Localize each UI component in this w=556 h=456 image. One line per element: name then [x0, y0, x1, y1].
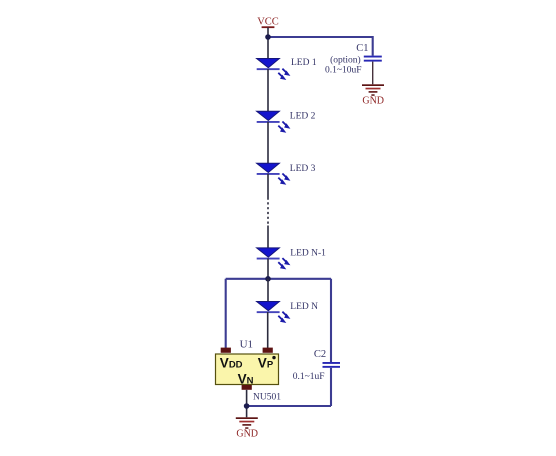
power flag VCC [257, 17, 279, 38]
wire LED N to VP pin [267, 312, 269, 348]
svg-text:0.1~10uF: 0.1~10uF [325, 66, 362, 76]
pin 1 dot [272, 356, 275, 359]
svg-text:LED N-1: LED N-1 [290, 248, 326, 258]
LED N-1 [257, 248, 291, 270]
svg-text:NU501: NU501 [253, 393, 281, 403]
wire LED1 to LED2 [267, 69, 269, 111]
pin pad VDD [221, 348, 231, 353]
LED 3 [257, 163, 291, 185]
IC U1 body [216, 354, 279, 385]
wire C1 to ground [372, 62, 374, 85]
svg-text:U1: U1 [240, 338, 253, 350]
wire box right vertical to C2 [330, 279, 332, 363]
wire LED2 to LED3 [267, 122, 269, 163]
svg-text:VCC: VCC [257, 17, 279, 28]
wire junction to LED N [267, 279, 269, 302]
junction node below LED N-1 [265, 276, 271, 282]
capacitor C1 [364, 56, 382, 62]
svg-text:LED 3: LED 3 [290, 164, 316, 174]
pin pad VN [242, 385, 252, 390]
svg-text:(option): (option) [330, 54, 361, 65]
svg-text:C1: C1 [356, 43, 368, 54]
svg-text:GND: GND [362, 96, 384, 107]
wire VCC node to LED1 [267, 37, 269, 59]
wire bottom rail horizontal [247, 405, 331, 407]
LED N [257, 302, 291, 324]
svg-text:LED 2: LED 2 [290, 112, 316, 122]
svg-text:0.1~1uF: 0.1~1uF [293, 372, 325, 382]
ground GND at bottom [236, 417, 258, 439]
LED 2 [257, 111, 291, 133]
capacitor C2 [323, 362, 341, 368]
LED 1 [257, 59, 291, 81]
svg-text:LED 1: LED 1 [291, 58, 317, 68]
wire box top horizontal [226, 278, 331, 280]
wire box left vertical to VDD [225, 279, 227, 348]
wire VCC node to C1 (horizontal) [268, 37, 373, 56]
wire LED N-1 to junction [267, 258, 269, 278]
ground GND at C1 [362, 84, 384, 106]
wire C2 bottom to bottom rail [330, 368, 332, 406]
junction node at VN/ground [244, 403, 250, 409]
pin pad VP [263, 348, 273, 353]
wire VN to junction [246, 390, 248, 418]
junction node at VCC [265, 34, 271, 40]
svg-text:C2: C2 [314, 349, 326, 360]
svg-text:LED N: LED N [290, 302, 318, 312]
svg-text:GND: GND [236, 429, 258, 440]
wire continuation (dashed) [267, 198, 269, 226]
wire to LED N-1 (solid) [267, 226, 269, 248]
wire LED3 down (solid) [267, 174, 269, 198]
